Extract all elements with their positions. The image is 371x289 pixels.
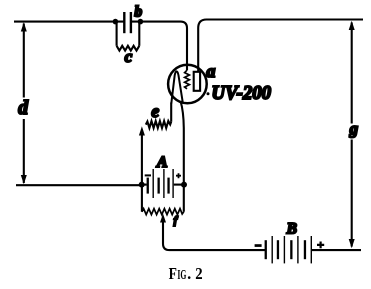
- arrowhead bottom of d: [21, 175, 27, 184]
- wire: from coil e arrow down through battery A left junction to rheostat f: [141, 132, 143, 212]
- inductor c (zigzag): [117, 46, 140, 51]
- svg-text:B: B: [286, 221, 297, 238]
- label minus of battery B: [255, 244, 262, 247]
- grid of tube (zigzag): [185, 70, 190, 89]
- wire: right drop from junction to coil c: [138, 22, 140, 46]
- inductor e (zigzag tickler coil): [146, 121, 171, 128]
- svg-text:c: c: [125, 47, 133, 66]
- wire d: left vertical with arrowheads (upper segment): [23, 24, 25, 98]
- svg-text:f: f: [174, 215, 179, 226]
- node: battery A left junction dot: [139, 182, 145, 188]
- node: junction dot left of capacitor b: [113, 19, 119, 25]
- svg-text:F: F: [169, 264, 177, 283]
- arrowhead top of g: [349, 21, 355, 30]
- label plus of battery A: [176, 173, 181, 178]
- arrowhead of rheostat wiper f: [160, 214, 166, 223]
- svg-text:A: A: [156, 154, 168, 171]
- svg-text:a: a: [206, 61, 215, 81]
- arrowhead top of d: [21, 22, 27, 31]
- wire: from capacitor right plate to grid lead curve, down into tube grid: [131, 22, 187, 71]
- wire: top-left horizontal from left end to capacitor left plate: [14, 21, 124, 23]
- battery A cells: [147, 169, 174, 198]
- label UV-200 with leading period dot: [207, 92, 210, 95]
- capacitor C b : right plate: [130, 12, 132, 33]
- battery B cells: [265, 236, 312, 263]
- svg-text:IG: IG: [177, 267, 186, 282]
- wire d: left vertical (lower segment): [23, 119, 25, 183]
- vacuum tube U1 envelope (UV-200): [168, 65, 207, 104]
- wire: battery A left stub: [142, 184, 147, 186]
- wire: bottom-left horizontal to battery A: [16, 184, 142, 186]
- wire g: right vertical with arrowheads (upper segment): [351, 23, 353, 124]
- svg-text:e: e: [151, 101, 159, 121]
- svg-text:d: d: [18, 98, 28, 119]
- label minus of battery A: [145, 174, 151, 176]
- svg-text:g: g: [349, 119, 359, 138]
- svg-text:2: 2: [195, 264, 202, 283]
- arrowhead pointing up at left end of coil e: [139, 126, 145, 135]
- wire: battery B plus lead to right, under g arrow: [312, 249, 361, 251]
- wire: wiper lead down and right to battery B: [163, 220, 266, 251]
- node: junction dot right of capacitor b: [138, 19, 144, 25]
- node: battery A right junction dot: [181, 182, 187, 188]
- plate (anode) of tube: [194, 72, 200, 91]
- wire: left drop from junction to coil c: [116, 22, 118, 46]
- svg-text:.: .: [187, 264, 191, 283]
- arrowhead bottom of g: [349, 239, 355, 248]
- wire: battery A right stub: [174, 184, 184, 186]
- wire: filament right lead down from tube to battery A right junction and rheostat: [181, 101, 184, 212]
- svg-text:UV-200: UV-200: [212, 83, 272, 104]
- capacitor C b : left plate: [123, 12, 125, 33]
- filament of tube (inverted U): [171, 71, 183, 103]
- wire g: right vertical (lower segment): [351, 140, 353, 247]
- svg-text:b: b: [134, 3, 142, 20]
- wire: plate lead up from tube, curve right, top-right horizontal to right edge: [198, 20, 363, 72]
- label plus of battery B: [317, 242, 324, 249]
- rheostat f (zigzag): [142, 209, 184, 215]
- wire: filament left lead down from tube to coil e: [170, 103, 172, 122]
